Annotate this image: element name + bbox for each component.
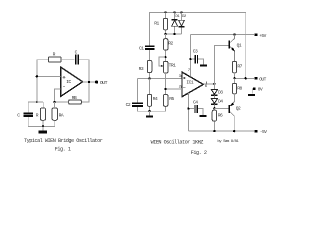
wire R to C (Fig1 top) (61, 59, 75, 61)
wire output top rail Fig2 (150, 12, 246, 78)
node -input/RA junction Fig1 (53, 101, 55, 103)
node Q2 collector bottom (233, 130, 235, 132)
diode D1 (172, 12, 181, 34)
wire Q1 base riser (214, 45, 228, 89)
wire limiter bottom row (166, 33, 182, 35)
svg-text:Q2: Q2 (236, 105, 241, 111)
resistor R2 (164, 34, 174, 61)
terminal 0V with chassis (248, 86, 263, 96)
capacitor C3 (189, 48, 203, 64)
capacitor C4 (187, 99, 203, 115)
resistor RA (Fig1) (52, 102, 64, 120)
wire output Fig1 (83, 81, 96, 83)
svg-text:IC: IC (66, 79, 71, 85)
resistor R6 (212, 108, 223, 131)
diode D2 (178, 12, 187, 34)
node R6 bottom (213, 130, 215, 132)
svg-text:RB: RB (72, 95, 77, 101)
svg-text:Q1: Q1 (237, 42, 242, 48)
resistor R1 (154, 12, 167, 34)
svg-text:IC1: IC1 (186, 80, 194, 86)
resistor R (top, Fig1) (48, 51, 61, 62)
terminal +5V (255, 33, 267, 39)
node R7/R8 OUT junction (233, 77, 235, 79)
pin 7 label and V+ wire (188, 35, 191, 77)
wire node to C and R stems Fig1 (28, 102, 43, 113)
svg-text:R7: R7 (237, 64, 242, 70)
svg-text:R3: R3 (139, 66, 144, 72)
resistor R7 (232, 61, 242, 78)
wire RB left to -input node (54, 101, 68, 103)
node ground junction Fig2 (148, 110, 150, 112)
capacitor C1 (139, 45, 155, 51)
capacitor C (bottom-left, Fig1) (17, 113, 33, 119)
node left grid junction Fig1 (36, 101, 38, 103)
node +input Fig1 (36, 75, 38, 77)
svg-text:Typical WIEN Bridge Oscillator: Typical WIEN Bridge Oscillator (24, 138, 103, 144)
node feedback rail/OUT junction (245, 77, 247, 79)
ground (C4 chassis) (199, 115, 206, 117)
svg-text:by Sam 8/81: by Sam 8/81 (217, 139, 239, 144)
wire right rail down to RB row (81, 82, 89, 102)
resistor R8 (232, 78, 242, 102)
svg-text:D4: D4 (218, 99, 223, 105)
capacitor C2 (126, 79, 150, 112)
svg-text:WIEN Oscillator 1KHZ: WIEN Oscillator 1KHZ (151, 139, 204, 145)
svg-text:Fig. 1: Fig. 1 (55, 146, 71, 152)
transistor Q1 (229, 35, 242, 62)
svg-text:C3: C3 (193, 48, 198, 54)
diode D4 (211, 98, 223, 108)
wire +5V row (190, 34, 254, 36)
pin 3 label (179, 75, 182, 79)
svg-text:R2: R2 (168, 40, 173, 46)
svg-text:TR1: TR1 (169, 62, 177, 68)
wire Q2 base row (214, 107, 228, 109)
ground (Fig1) (39, 126, 47, 133)
node output/D3 junction (213, 83, 215, 85)
svg-text:D3: D3 (218, 90, 223, 96)
wire TR1 to -input (165, 73, 167, 89)
node D2 top (180, 11, 182, 13)
node ground junction Fig1 (42, 125, 44, 127)
wire OUT row Fig2 (235, 77, 254, 79)
resistor RB (Fig1) (69, 95, 82, 104)
ground (Wien network) (146, 111, 153, 118)
svg-text:+5V: +5V (259, 33, 266, 39)
svg-text:C4: C4 (193, 99, 198, 105)
node D4/R6/Q2-base junction (213, 107, 215, 109)
resistor R3 (139, 50, 152, 79)
wire op-amp output Fig2 (203, 83, 214, 85)
svg-text:C2: C2 (126, 102, 131, 108)
svg-text:R1: R1 (154, 21, 159, 27)
wire top-left rail Fig1 (37, 60, 49, 102)
svg-text:R6: R6 (218, 112, 223, 118)
terminal -5V (255, 129, 268, 135)
svg-text:R8: R8 (237, 86, 242, 92)
ground (C3 chassis) (200, 65, 207, 67)
wire C to right rail Fig1 (79, 60, 89, 82)
capacitor C (top, Fig1) (75, 50, 80, 65)
node Q1 collector junction (233, 33, 235, 35)
node R1 top (164, 11, 166, 13)
svg-text:R4: R4 (153, 96, 158, 102)
terminal OUT Fig2 (255, 76, 267, 82)
svg-text:C1: C1 (139, 45, 144, 51)
wire bottom row Fig1 (28, 117, 55, 126)
wire +input row Fig2 (138, 78, 183, 80)
node R1/R2 junction (164, 33, 166, 35)
svg-text:-5V: -5V (260, 129, 267, 135)
pin 4 label and V- wire (186, 93, 189, 131)
node D1 bottom (174, 33, 176, 35)
svg-text:Fig. 2: Fig. 2 (191, 150, 207, 156)
wire -input Fig1 (54, 89, 60, 102)
wire -input row Fig2 (166, 88, 182, 90)
terminal OUT Fig1 (95, 80, 108, 86)
wire +input Fig1 (37, 75, 61, 77)
svg-text:OUT: OUT (100, 80, 108, 86)
svg-text:RA: RA (59, 113, 64, 119)
wire -5V rail (188, 130, 254, 132)
resistor R4 (147, 79, 158, 112)
diode D3 (211, 89, 223, 98)
transistor Q2 (229, 102, 241, 131)
pin 2 label (179, 85, 182, 89)
resistor R (bottom, Fig1) (36, 108, 46, 120)
resistor R5 (150, 89, 175, 111)
pin 6 label (205, 81, 208, 89)
node D1 top (174, 11, 176, 13)
node Wien junction A (148, 77, 150, 79)
node -input junction (164, 88, 166, 90)
svg-text:OUT: OUT (259, 76, 266, 82)
trimmer TR1 (159, 56, 176, 73)
node output junction Fig1 (88, 81, 90, 83)
op-amp IC1 (182, 72, 203, 97)
op-amp IC (Fig1) (61, 67, 83, 97)
svg-text:R5: R5 (169, 96, 174, 102)
